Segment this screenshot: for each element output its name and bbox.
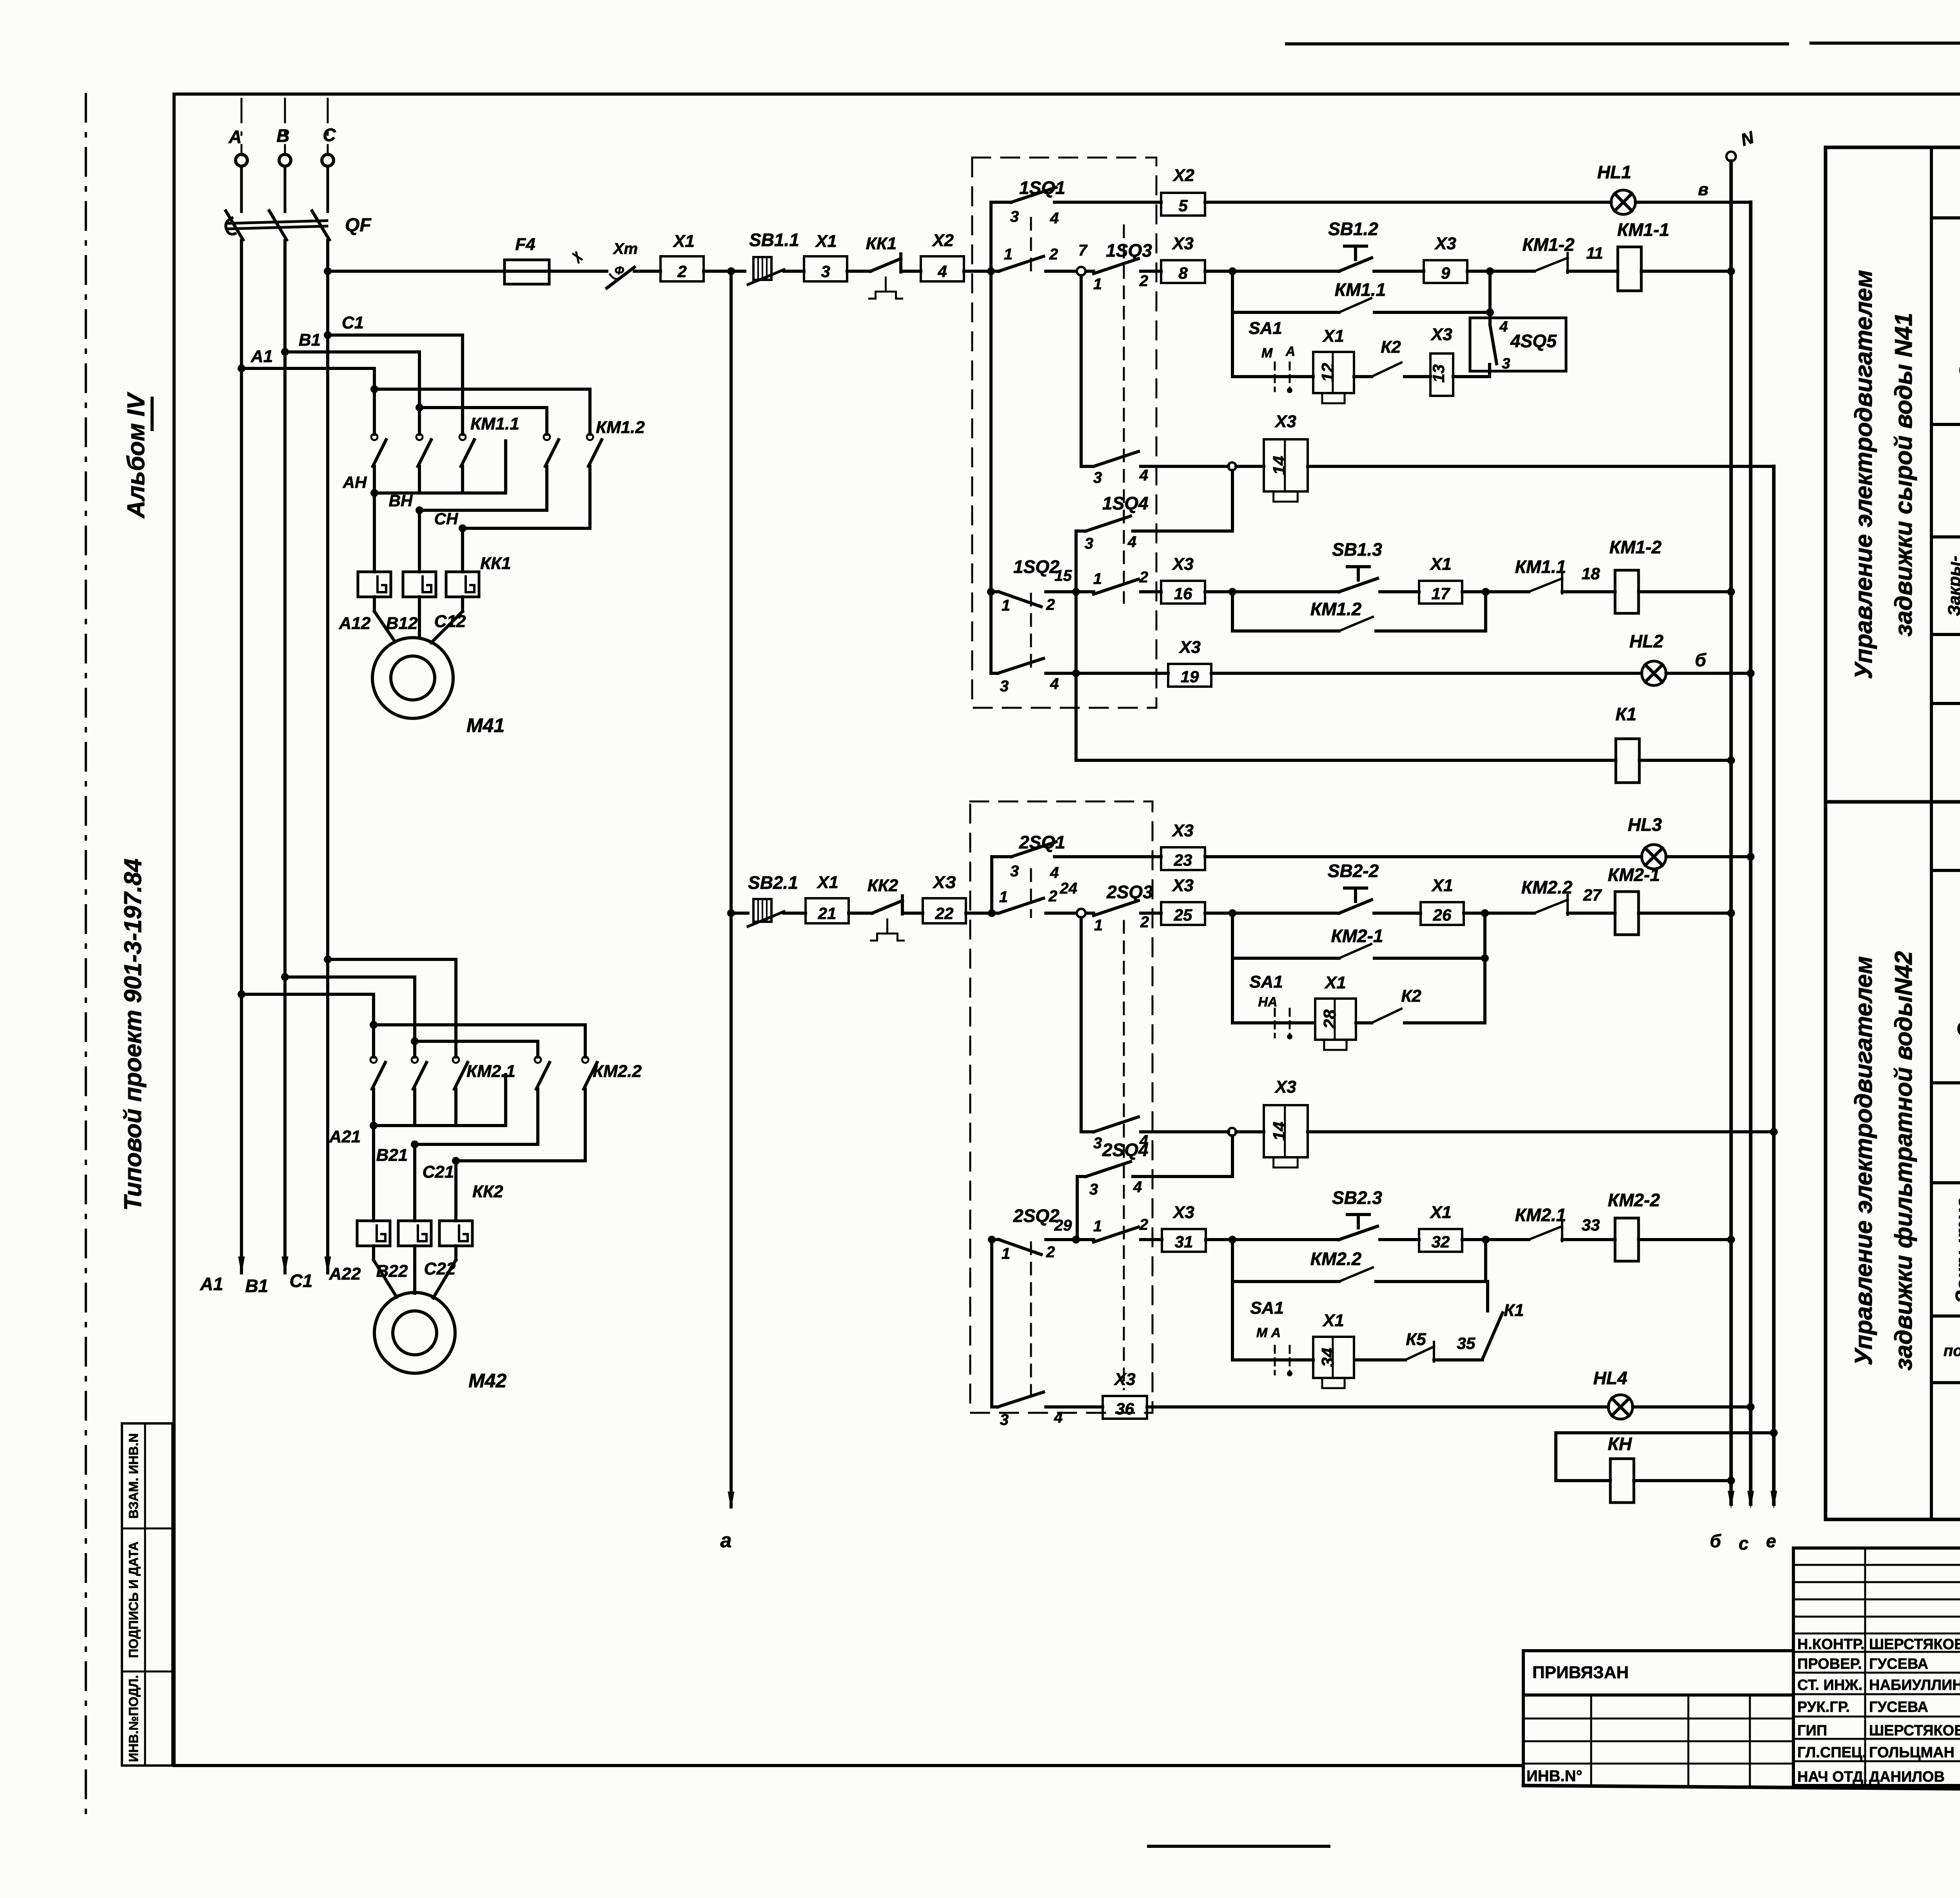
svg-text:HL2: HL2 [1630, 631, 1664, 651]
wire control feed [328, 270, 505, 273]
svg-text:SB1.3: SB1.3 [1332, 539, 1382, 560]
svg-text:3: 3 [1010, 208, 1019, 225]
svg-text:SB2-2: SB2-2 [1328, 861, 1379, 881]
wire [1380, 590, 1419, 593]
wire KK1 to motor M41 [374, 597, 463, 643]
svg-text:В1: В1 [299, 330, 321, 350]
terminal X3:36 [1103, 1396, 1147, 1419]
svg-text:А1: А1 [200, 1274, 223, 1294]
contactor KM1.2 reversing contacts [370, 385, 645, 528]
terminal X3:22 [923, 898, 966, 923]
svg-text:34: 34 [1318, 1348, 1338, 1367]
wire riser to 2SQ2 second contact [990, 1240, 993, 1407]
wire [634, 270, 661, 273]
fuse F4 [505, 235, 549, 284]
wire HL4 row [1147, 1405, 1608, 1409]
svg-text:М42: М42 [468, 1370, 506, 1392]
terminal X1:17 [1419, 581, 1462, 604]
svg-text:2SQ2: 2SQ2 [1013, 1206, 1060, 1226]
svg-text:А: А [1285, 344, 1296, 359]
table cell Закрытие ручное (1) [1931, 537, 1960, 634]
svg-text:ГОЛЬЦМАН: ГОЛЬЦМАН [1869, 1744, 1955, 1761]
pushbutton SB2.3 [1332, 1187, 1382, 1240]
svg-text:КМ2.2: КМ2.2 [1521, 877, 1573, 897]
svg-text:4: 4 [1054, 1409, 1063, 1426]
svg-text:ХЗ: ХЗ [932, 873, 956, 892]
wire [1374, 912, 1421, 915]
wire HL3 row [1205, 855, 1642, 858]
relay coil KM1-1 [1617, 219, 1669, 291]
svg-text:32: 32 [1432, 1233, 1450, 1251]
svg-text:11: 11 [1586, 244, 1603, 262]
svg-text:КК2: КК2 [472, 1182, 503, 1201]
svg-text:М41: М41 [466, 714, 505, 736]
svg-text:1: 1 [1002, 1245, 1010, 1262]
top trim line [1287, 43, 1960, 44]
thermal relay KK2 heaters [357, 1182, 503, 1246]
wire [1462, 1236, 1529, 1244]
phase input C [322, 99, 336, 166]
svg-text:ГИП: ГИП [1797, 1722, 1827, 1739]
terminal X3:9 [1424, 260, 1467, 283]
svg-text:X1: X1 [1322, 1311, 1344, 1330]
node B1 bottom arrow [245, 1256, 289, 1296]
svg-text:4: 4 [1133, 1178, 1142, 1196]
svg-text:ПРОВЕР.: ПРОВЕР. [1797, 1656, 1862, 1672]
svg-text:ПРИВЯЗАН: ПРИВЯЗАН [1532, 1663, 1629, 1682]
lamp HL2 [1630, 631, 1666, 685]
svg-text:X3: X3 [1171, 876, 1194, 895]
function table frame [1826, 147, 1960, 1519]
node C1 tap [324, 313, 463, 339]
pushbutton SB1.3 [1332, 539, 1382, 592]
selector switch SA1 (auto position) [1232, 1282, 1313, 1376]
svg-text:1: 1 [999, 888, 1008, 906]
svg-text:е: е [1766, 1531, 1776, 1551]
table header section 2 (rotated) [1850, 951, 1917, 1370]
svg-text:задвижки сырой воды N41: задвижки сырой воды N41 [1890, 313, 1917, 636]
svg-text:2: 2 [1048, 888, 1057, 905]
svg-text:1: 1 [1093, 1218, 1102, 1235]
svg-text:М: М [1261, 346, 1273, 361]
svg-text:36: 36 [1116, 1399, 1134, 1418]
svg-text:КМ1-2: КМ1-2 [1609, 537, 1661, 557]
connector XT plug-socket [607, 240, 638, 288]
limit switch 2SQ3 contact 3-4 [1081, 1117, 1236, 1152]
svg-text:9: 9 [1441, 264, 1450, 282]
terminal X1:26 [1421, 902, 1464, 925]
svg-text:3: 3 [1000, 678, 1009, 695]
thermal contact KK2 [867, 876, 904, 941]
stamp Альбом IV (rotated) [123, 392, 152, 519]
wire [1464, 909, 1534, 917]
tick mark [573, 252, 582, 263]
svg-text:X1: X1 [1324, 973, 1346, 992]
svg-text:X2: X2 [1172, 166, 1194, 185]
svg-text:21: 21 [818, 904, 837, 923]
mechanical link 2SQ2 [1030, 1242, 1032, 1395]
svg-text:F4: F4 [515, 235, 535, 254]
node 15 [1054, 567, 1080, 596]
svg-text:X3: X3 [1171, 821, 1194, 840]
svg-text:ИНВ.№ПОДЛ.: ИНВ.№ПОДЛ. [126, 1675, 141, 1762]
svg-text:2: 2 [1046, 596, 1055, 613]
terminal X1:12 [1313, 352, 1354, 393]
pushbutton SB2.1 [748, 872, 798, 926]
svg-text:К2: К2 [1401, 986, 1421, 1006]
svg-text:SB2.1: SB2.1 [748, 872, 798, 893]
wire node7 riser to 1SQ3 second contact [1080, 276, 1083, 466]
node B1 tap [281, 330, 419, 356]
contact K2 (motor 2) [1356, 958, 1485, 1023]
svg-text:КМ2.1: КМ2.1 [466, 1062, 515, 1081]
wire [1467, 267, 1534, 275]
svg-text:X1: X1 [816, 873, 838, 892]
svg-text:2: 2 [1140, 914, 1149, 931]
svg-text:23: 23 [1174, 851, 1192, 869]
svg-text:КМ1.2: КМ1.2 [1310, 599, 1362, 619]
node 7 [1046, 242, 1088, 276]
svg-text:КМ1.1: КМ1.1 [470, 414, 519, 433]
limit switch 2SQ1 contact 3-4 [992, 832, 1161, 881]
svg-text:Н.КОНТР.: Н.КОНТР. [1797, 1636, 1865, 1653]
motor M41 [372, 638, 505, 736]
contact KM1.1 NC interlock [1515, 557, 1566, 593]
svg-text:Открытие: Открытие [1954, 922, 1960, 1038]
svg-text:26: 26 [1433, 906, 1452, 924]
node C21 bus [423, 1157, 585, 1182]
svg-text:НАЧ ОТД.: НАЧ ОТД. [1797, 1769, 1867, 1785]
contact KM2.2 NC interlock [1521, 877, 1573, 915]
contactor KM2.2 reversing contacts [370, 1021, 642, 1161]
svg-text:X1: X1 [1429, 555, 1452, 574]
wire KK2 to motor M42 [374, 1246, 456, 1298]
table cell Сигнал открытие (1) [1931, 161, 1960, 218]
svg-text:1: 1 [1094, 917, 1103, 934]
wire buses to KK1 [374, 493, 463, 572]
rail N vertical [1726, 128, 1757, 1509]
contact K2 [1354, 337, 1401, 377]
wire [1205, 588, 1339, 596]
svg-text:ДАНИЛОВ: ДАНИЛОВ [1869, 1769, 1945, 1785]
wire [1462, 588, 1529, 596]
terminal X1:3 [804, 256, 847, 281]
wire phase C vertical [326, 241, 329, 1273]
svg-text:2: 2 [1046, 1244, 1055, 1261]
limit switch box 2SQ dashed outline [970, 801, 1152, 1413]
svg-text:С1: С1 [290, 1271, 313, 1291]
svg-text:2SQ4: 2SQ4 [1102, 1140, 1149, 1160]
svg-text:Управление электродвигателем: Управление электродвигателем [1850, 270, 1877, 679]
svg-text:КМ2.2: КМ2.2 [593, 1062, 642, 1081]
lamp HL3 [1628, 814, 1666, 869]
svg-text:1: 1 [1093, 276, 1102, 293]
svg-text:17: 17 [1432, 584, 1450, 603]
svg-text:1: 1 [1093, 570, 1102, 587]
svg-text:ВН: ВН [389, 491, 413, 510]
wire to 1SQ4 [1231, 470, 1234, 531]
svg-text:КН: КН [1608, 1434, 1632, 1454]
svg-text:8: 8 [1178, 264, 1188, 282]
svg-text:HL4: HL4 [1593, 1368, 1628, 1388]
svg-text:4: 4 [1050, 210, 1059, 227]
svg-text:X3: X3 [1274, 1077, 1296, 1097]
svg-text:1SQ2: 1SQ2 [1013, 557, 1060, 577]
svg-text:В21: В21 [376, 1146, 408, 1165]
svg-text:X3: X3 [1113, 1370, 1136, 1389]
svg-text:1: 1 [1004, 246, 1013, 263]
svg-text:3: 3 [1502, 355, 1510, 372]
svg-text:А21: А21 [329, 1127, 361, 1146]
self-hold contact KM1.2 row [1232, 592, 1486, 631]
svg-text:4: 4 [1139, 467, 1148, 484]
wire [901, 270, 921, 273]
svg-text:б: б [1695, 650, 1707, 670]
mechanical link 2SQ4 [1123, 1246, 1125, 1389]
wire to rail [1639, 1236, 1735, 1244]
svg-text:13: 13 [1429, 364, 1448, 383]
svg-text:Φ: Φ [615, 264, 624, 277]
svg-text:14: 14 [1270, 1122, 1289, 1141]
wire riser node15 column [1074, 531, 1078, 760]
svg-text:2SQ1: 2SQ1 [1019, 832, 1065, 852]
svg-text:Типовой проект 901-3-197.84: Типовой проект 901-3-197.84 [120, 859, 147, 1211]
node A1 bottom arrow [200, 1256, 245, 1294]
rail 2 vertical [1748, 202, 1754, 1509]
circuit breaker QF [226, 167, 372, 240]
svg-text:В12: В12 [386, 614, 418, 633]
svg-text:HL1: HL1 [1597, 162, 1632, 182]
svg-text:4: 4 [937, 262, 947, 281]
contact K1 NO [1434, 1282, 1524, 1360]
wire [704, 270, 745, 273]
wire to rails [1633, 1403, 1755, 1411]
svg-text:3: 3 [1093, 1135, 1102, 1152]
table cell Сигнал закрытие [1931, 644, 1960, 703]
svg-text:КМ2-2: КМ2-2 [1608, 1190, 1660, 1210]
svg-text:3: 3 [1000, 1411, 1009, 1428]
wire phase A vertical [240, 241, 243, 1273]
relay KH branch [1556, 1429, 1778, 1503]
svg-text:НАБИУЛЛИНА: НАБИУЛЛИНА [1869, 1677, 1960, 1693]
terminal X1:32 [1419, 1229, 1462, 1252]
limit switch 2SQ2 contact 1-2 [988, 1206, 1076, 1262]
svg-text:С1: С1 [342, 313, 364, 332]
wire riser left 1SQ column [989, 202, 993, 673]
contact KM1-2 NC interlock [1522, 234, 1574, 273]
mechanical link 1SQ1 [1030, 218, 1032, 274]
limit switch 1SQ2 contact 1-2 [987, 557, 1076, 614]
contact KM2.1 NC interlock [1515, 1205, 1566, 1241]
bottom trim line [1149, 1845, 1329, 1848]
svg-text:X1: X1 [815, 232, 837, 251]
title block personnel table [1793, 1548, 1960, 1786]
svg-text:X3: X3 [1178, 638, 1201, 657]
svg-text:24: 24 [1060, 880, 1078, 897]
svg-text:X3: X3 [1434, 234, 1456, 253]
wire [849, 912, 872, 915]
node 33 [1562, 1216, 1615, 1240]
wire to 2SQ4 [1231, 1136, 1234, 1177]
node BH bus [389, 491, 547, 514]
pushbutton SB1.1 [748, 230, 799, 285]
svg-text:СТ. ИНЖ.: СТ. ИНЖ. [1797, 1677, 1862, 1693]
terminal X3:25 [1161, 902, 1205, 925]
mechanical link 1SQ2 [1030, 594, 1032, 675]
node on phase C feeding control circuit [324, 267, 332, 275]
svg-text:29: 29 [1054, 1217, 1072, 1234]
limit switch box 1SQ dashed outline [972, 158, 1156, 708]
svg-text:КМ2.1: КМ2.1 [1515, 1205, 1566, 1225]
node 18 [1562, 564, 1615, 592]
pushbutton SB2-2 [1328, 861, 1379, 913]
mechanical link 2SQ1 [1030, 869, 1032, 917]
svg-text:после закрытия задви-: после закрытия задви- [1944, 1342, 1960, 1360]
svg-text:X1: X1 [1431, 876, 1453, 895]
svg-text:с: с [1739, 1533, 1749, 1554]
nodes A12 B12 C12 [339, 612, 466, 633]
table cell Открытие / Ручное / Выдержка времени [1931, 870, 1960, 1083]
svg-text:28: 28 [1320, 1010, 1339, 1029]
self-hold contact KM2-1 row [1232, 913, 1489, 962]
svg-text:ШЕРСТЯКОВА: ШЕРСТЯКОВА [1869, 1722, 1960, 1739]
limit switch 1SQ2b contact 1-2 [1076, 569, 1161, 594]
svg-text:31: 31 [1175, 1233, 1193, 1251]
limit switch 4SQ5 [1470, 271, 1566, 377]
svg-text:4: 4 [1127, 533, 1136, 551]
wire phase B vertical [283, 241, 287, 1273]
wire to rails [1666, 853, 1755, 861]
wire node24 riser [1080, 917, 1083, 1132]
svg-text:КМ1.1: КМ1.1 [1335, 279, 1386, 300]
phase input B [276, 99, 291, 166]
svg-text:2: 2 [1139, 1216, 1148, 1233]
terminal X1:2 [661, 256, 704, 281]
svg-text:SA1: SA1 [1249, 972, 1283, 992]
svg-text:25: 25 [1174, 906, 1192, 924]
svg-text:3: 3 [1010, 863, 1019, 880]
svg-text:15: 15 [1054, 567, 1072, 584]
svg-text:СН: СН [434, 509, 459, 528]
wire [784, 912, 806, 915]
svg-text:X3: X3 [1171, 555, 1194, 574]
svg-text:ВЗАМ. ИНВ.N: ВЗАМ. ИНВ.N [126, 1433, 141, 1519]
svg-text:Альбом IV: Альбом IV [123, 392, 150, 519]
svg-text:4SQ5: 4SQ5 [1510, 331, 1557, 351]
limit switch 2SQ4 contact 3-4 [1077, 1140, 1149, 1198]
svg-text:КМ1.2: КМ1.2 [596, 418, 645, 437]
table cell Открытие / Ручное / Выдержка [1931, 218, 1960, 424]
svg-text:А1: А1 [250, 347, 273, 366]
svg-text:1SQ3: 1SQ3 [1106, 240, 1152, 261]
lamp HL1 [1597, 162, 1635, 214]
self-hold contact KM2.2 row [1232, 1240, 1486, 1282]
svg-text:4: 4 [1050, 675, 1059, 692]
svg-text:QF: QF [345, 215, 372, 236]
svg-text:12: 12 [1318, 363, 1338, 382]
svg-text:B: B [276, 125, 289, 146]
self-hold contact KM1.1 row [1232, 271, 1494, 316]
svg-text:22: 22 [935, 904, 954, 923]
svg-text:3: 3 [1093, 469, 1102, 486]
wire buses to KK2 [374, 1126, 456, 1221]
wire riser to motor-2 control (node a) [720, 271, 735, 1552]
wire [964, 270, 999, 273]
svg-text:2SQ3: 2SQ3 [1106, 882, 1153, 902]
node AH bus [343, 441, 506, 497]
contactor KM1.1 main contacts [371, 335, 519, 493]
svg-text:3: 3 [1085, 535, 1093, 552]
wire motor-2 feed row [727, 909, 748, 917]
svg-text:Управление электродвигателем: Управление электродвигателем [1850, 956, 1877, 1365]
wire [549, 270, 607, 273]
terminal X1:21 [806, 898, 849, 923]
title block privyazan table [1523, 1651, 1793, 1786]
wire row to rail [1236, 1128, 1778, 1136]
terminal X3:19 [1168, 664, 1211, 687]
node C2 tap [324, 955, 456, 963]
lamp HL4 [1593, 1368, 1633, 1419]
svg-text:А22: А22 [329, 1264, 361, 1283]
table cell Сигнал открытие (2) [1931, 814, 1960, 870]
limit switch 1SQ3 contact 3-4 [1081, 451, 1236, 486]
svg-text:18: 18 [1582, 564, 1600, 583]
node 24 [1046, 880, 1085, 917]
wire [1405, 375, 1430, 378]
svg-text:КК2: КК2 [867, 876, 898, 895]
motor M42 [374, 1293, 506, 1392]
svg-text:КК1: КК1 [866, 234, 897, 253]
svg-text:14: 14 [1270, 456, 1289, 475]
svg-text:М А: М А [1256, 1325, 1281, 1340]
table cell Закрытие ручное автоматическое [1931, 1183, 1960, 1316]
svg-text:SB1.2: SB1.2 [1328, 219, 1378, 239]
svg-text:задвижки фильтратной водыN42: задвижки фильтратной водыN42 [1890, 951, 1917, 1370]
svg-text:К1: К1 [1615, 704, 1637, 724]
svg-text:A: A [228, 127, 241, 147]
relay coil KM2-1 [1608, 865, 1660, 935]
table cell По уровню [1931, 1322, 1960, 1383]
node B2 tap [281, 973, 415, 981]
node A21 bus [329, 1075, 506, 1146]
svg-text:К2: К2 [1381, 337, 1401, 357]
svg-text:Хт: Хт [613, 240, 638, 257]
limit switch 1SQ3 contact 1-2 [1086, 240, 1161, 293]
svg-text:3: 3 [821, 262, 830, 281]
svg-text:19: 19 [1181, 667, 1199, 686]
svg-text:Закры-: Закры- [1945, 556, 1960, 616]
wire HL1 row [1205, 201, 1611, 204]
svg-text:2: 2 [677, 262, 686, 281]
wire riser left 2SQ column [990, 857, 993, 913]
svg-text:X1: X1 [1322, 326, 1344, 346]
table cell Заклинивание (1) [1931, 469, 1960, 537]
svg-text:КМ1-2: КМ1-2 [1522, 234, 1574, 255]
svg-text:35: 35 [1457, 1334, 1475, 1352]
terminal X1:28 [1315, 999, 1356, 1040]
terminal X3:23 [1161, 847, 1205, 870]
terminal X2:4 [921, 256, 964, 281]
svg-text:SA1: SA1 [1250, 1298, 1284, 1318]
svg-text:2: 2 [1139, 272, 1148, 290]
svg-text:КМ2.2: КМ2.2 [1310, 1249, 1362, 1269]
nodes A22 B22 C22 [329, 1259, 456, 1283]
mechanical link 1SQ3 [1123, 225, 1125, 603]
terminal X3:16 [1161, 581, 1205, 604]
svg-text:Открытие: Открытие [1956, 263, 1960, 379]
svg-text:РУК.ГР.: РУК.ГР. [1797, 1699, 1850, 1715]
svg-text:ИНВ.N°: ИНВ.N° [1526, 1767, 1583, 1785]
